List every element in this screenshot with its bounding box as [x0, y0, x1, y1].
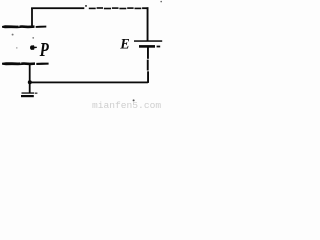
svg-text:mianfen5.com: mianfen5.com	[92, 100, 161, 111]
watermark speck over 5	[133, 99, 135, 101]
ground bar 1	[22, 92, 35, 93]
wire: right rail lower (battery down to bottom rail)	[147, 48, 149, 83]
svg-text:P: P	[39, 40, 50, 61]
battery E short thick plate	[139, 45, 155, 48]
speck near left mid	[12, 34, 14, 36]
arrow pointing left at plate P	[30, 45, 37, 50]
speck left of arrow	[16, 47, 18, 49]
wire: top rail dashed part	[89, 7, 149, 9]
wire: bottom plate down to ground	[29, 65, 31, 93]
wire: right rail upper (top rail down to battery)	[147, 7, 149, 41]
wire: top plate up to top rail	[31, 8, 33, 27]
capacitor plate bottom	[2, 62, 49, 65]
svg-text:E: E	[119, 36, 129, 52]
speck above arrow	[32, 37, 34, 39]
battery E short plate right dash	[157, 46, 161, 48]
speck top right corner	[160, 1, 162, 3]
wire: top rail solid part	[31, 7, 84, 9]
wire: bottom rail	[30, 82, 148, 84]
battery E long plate	[134, 40, 162, 42]
ground bar 2	[21, 95, 34, 97]
junction node dot	[28, 80, 32, 84]
capacitor plate top (plate P)	[2, 25, 46, 28]
node: speck above top rail gap	[85, 5, 87, 7]
